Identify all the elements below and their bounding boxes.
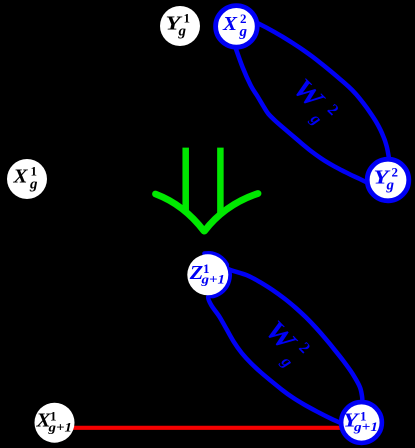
node Y_g^2 <box>367 159 409 201</box>
svg-text:g: g <box>29 177 38 193</box>
svg-text:g: g <box>178 24 187 40</box>
svg-text:g+1: g+1 <box>200 272 225 287</box>
green double arrow (implication) pointing down <box>156 148 259 231</box>
svg-text:X: X <box>12 166 28 188</box>
edge W_g^2 lens between Z_{g+1}^1 and Y_{g+1}^1 (upper branch) <box>204 253 362 403</box>
node X_{g+1}^1 <box>35 403 75 443</box>
svg-text:g: g <box>386 178 395 194</box>
svg-text:X: X <box>222 13 238 35</box>
svg-text:g+1: g+1 <box>47 419 72 434</box>
node Y_{g+1}^1 <box>341 402 382 443</box>
red edge X_{g+1}^1 - Y_{g+1}^1 <box>55 426 362 430</box>
node X_g^2 <box>216 6 258 48</box>
label W_g^2 bottom <box>259 315 313 371</box>
svg-text:g+1: g+1 <box>353 419 378 434</box>
edge W_g^2 lens between Z_{g+1}^1 and Y_{g+1}^1 (lower branch) <box>208 270 343 424</box>
edge W_g^2 lens between X_g^2 and Y_g^2 (lower branch) <box>235 45 370 184</box>
node Y_g^1 <box>160 6 200 46</box>
svg-text:g: g <box>239 24 248 40</box>
label W_g^2 top <box>286 72 341 128</box>
edge W_g^2 lens between X_g^2 and Y_g^2 (upper branch) <box>250 20 389 160</box>
node Z_{g+1}^1 <box>187 254 228 295</box>
node X_g^1 <box>7 159 47 199</box>
